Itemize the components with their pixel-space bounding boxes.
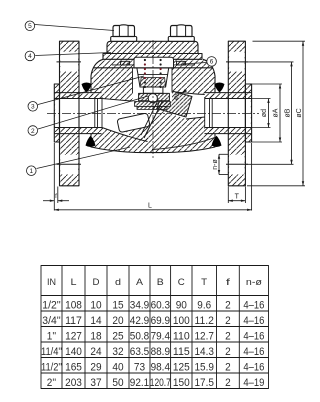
weld bead bottom-left	[86, 136, 96, 147]
spring dotted lines	[144, 59, 162, 88]
left flange fill	[60, 41, 80, 186]
dim oA	[248, 83, 283, 85]
weld bead top-right	[215, 83, 225, 93]
bonnet flange outline	[103, 54, 202, 60]
right flange outline	[228, 41, 245, 186]
weld bead top-left	[82, 83, 92, 93]
pipe socket ends	[94, 99, 96, 128]
seat ring stack	[135, 102, 171, 107]
passage roof line	[102, 99, 137, 102]
right bore	[205, 99, 251, 127]
right passage pocket	[157, 90, 205, 119]
left flange outline	[60, 41, 80, 186]
seat diagonal lines	[144, 96, 165, 138]
bonnet cap fill	[107, 41, 198, 53]
spring red dots overlay	[144, 63, 162, 79]
bore lines	[54, 98, 102, 100]
left raised face fill	[54, 84, 59, 142]
dim n-o	[219, 153, 229, 155]
left passage pocket	[102, 96, 165, 138]
L dim	[251, 143, 253, 211]
cavity boundary strokes	[176, 92, 205, 95]
body top face lines	[112, 64, 134, 66]
body casting fill	[91, 59, 215, 152]
piston internal line	[138, 73, 168, 75]
T dim	[227, 187, 229, 204]
right gasket tab	[177, 61, 186, 65]
dim labels right	[212, 108, 303, 170]
piston guide	[139, 93, 170, 100]
body outline	[91, 59, 215, 152]
flange bolt hole lines	[57, 62, 249, 164]
chamber wall lines	[132, 68, 134, 94]
right raised face outline	[245, 84, 251, 142]
dim arrows right	[218, 41, 304, 186]
bolt left hex	[113, 25, 135, 37]
left bore	[55, 99, 102, 127]
dim oC	[253, 40, 306, 42]
piston body	[137, 68, 169, 87]
body shelf line	[94, 67, 213, 69]
chamber white	[133, 68, 173, 102]
bolt right hex	[171, 25, 193, 37]
ball	[148, 94, 157, 103]
left raised face outline	[54, 84, 59, 142]
right pipe fill	[210, 93, 229, 134]
disc left piece	[117, 113, 150, 133]
piston cap	[134, 57, 174, 68]
pipe OD lines	[54, 92, 101, 94]
bonnet cap outline	[107, 41, 198, 53]
f dim	[53, 143, 55, 211]
right flange fill	[228, 41, 245, 186]
bonnet flange fill	[103, 54, 202, 60]
right raised face fill	[245, 84, 251, 142]
horizontal centerline	[47, 112, 259, 114]
vertical centerline	[152, 40, 154, 158]
dim oB	[246, 61, 294, 63]
wedge below disc	[122, 122, 150, 142]
left gasket tab	[121, 61, 130, 65]
disc right slab	[157, 89, 192, 118]
dim od	[252, 98, 271, 100]
left pipe fill	[79, 93, 98, 134]
bolt left washer	[111, 37, 137, 42]
flange bolt notches	[60, 52, 78, 72]
bolt right washer	[168, 37, 194, 42]
weld bead bottom-right	[212, 136, 222, 147]
piston stem	[143, 87, 163, 93]
